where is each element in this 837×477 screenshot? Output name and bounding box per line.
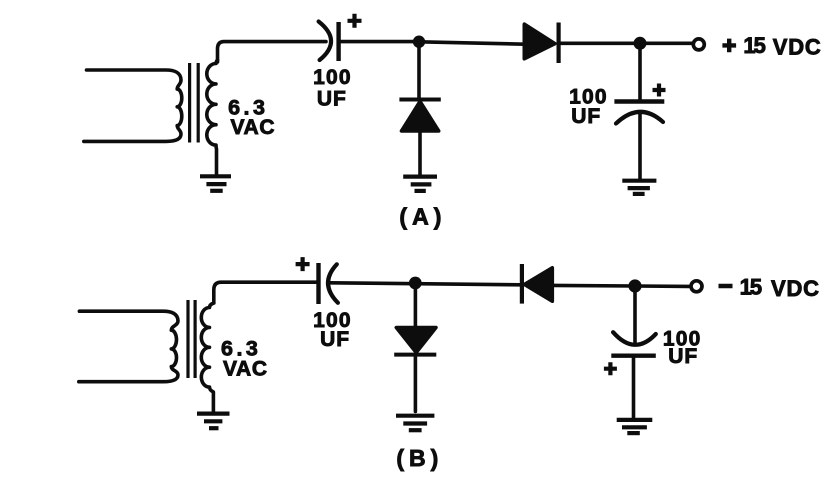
- svg-text:100: 100: [313, 66, 352, 89]
- svg-text:(B): (B): [396, 445, 443, 471]
- svg-text:(A): (A): [399, 204, 446, 230]
- svg-text:UF: UF: [320, 328, 350, 351]
- svg-text:VAC: VAC: [231, 116, 276, 139]
- svg-text:15: 15: [740, 274, 762, 299]
- svg-text:15: 15: [743, 33, 765, 58]
- svg-text:VDC: VDC: [773, 34, 822, 59]
- svg-text:UF: UF: [317, 88, 347, 111]
- svg-text:UF: UF: [571, 105, 601, 128]
- svg-text:UF: UF: [668, 345, 698, 368]
- svg-text:VAC: VAC: [223, 357, 268, 380]
- svg-text:VDC: VDC: [771, 276, 820, 301]
